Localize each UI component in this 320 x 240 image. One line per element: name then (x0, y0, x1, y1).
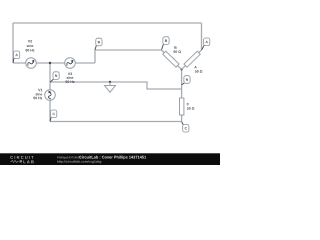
wire bottom horizontal (50, 121, 182, 123)
footer logo LAB (23, 160, 33, 163)
voltage source V1 (sine 50 Hz) (45, 90, 56, 101)
label resistor A value (194, 66, 196, 68)
label resistor B value (174, 46, 176, 48)
node flag A (load side) (202, 38, 210, 50)
wire neutral branch vertical (49, 63, 51, 90)
footer bar (0, 153, 220, 165)
footer logo zigzag (10, 160, 18, 162)
node flag A (source side) (13, 51, 20, 63)
wire top (phase A feed) (13, 22, 202, 24)
wire left vertical (12, 23, 14, 63)
resistor A 50ohm (182, 50, 202, 69)
node flag B (load side) (162, 37, 169, 50)
footer text line 2 url (57, 160, 101, 163)
wire V2-V3 horizontal (13, 62, 95, 64)
ground (105, 82, 116, 92)
label V3 value (68, 73, 72, 75)
node flag C (source side) (50, 110, 57, 121)
wire neutral horizontal to N (50, 82, 182, 89)
label V1 value (38, 89, 42, 91)
label V2 value (28, 40, 32, 42)
wire V1 bottom lead (49, 100, 51, 122)
wire resistor C bottom stub (181, 115, 183, 122)
junction dot Y node N (180, 68, 182, 70)
resistor B 50ohm (162, 50, 182, 69)
wire V3 to node B step (95, 50, 162, 63)
wire right vertical to node A (201, 23, 203, 50)
footer text line 1 dim (57, 156, 81, 159)
node flag N (load side) (182, 76, 190, 85)
footer logo square (20, 160, 22, 162)
wire N vertical (181, 69, 183, 98)
voltage source V3 (sine 50 Hz) (65, 58, 76, 69)
voltage source V2 (sine 50 Hz) (26, 58, 37, 69)
canvas background (0, 0, 220, 165)
node flag C (load side) (182, 122, 189, 132)
footer text line 1 bright (79, 156, 146, 160)
footer logo CIRCUIT (10, 156, 33, 159)
node flag N (source side) (50, 72, 59, 82)
junction dot neutral at ground (109, 81, 111, 83)
node flag B (source side) (95, 38, 102, 50)
resistor C 50ohm (180, 98, 184, 115)
junction dot V2/V3/neutral (49, 62, 51, 64)
label resistor C value (187, 103, 189, 105)
